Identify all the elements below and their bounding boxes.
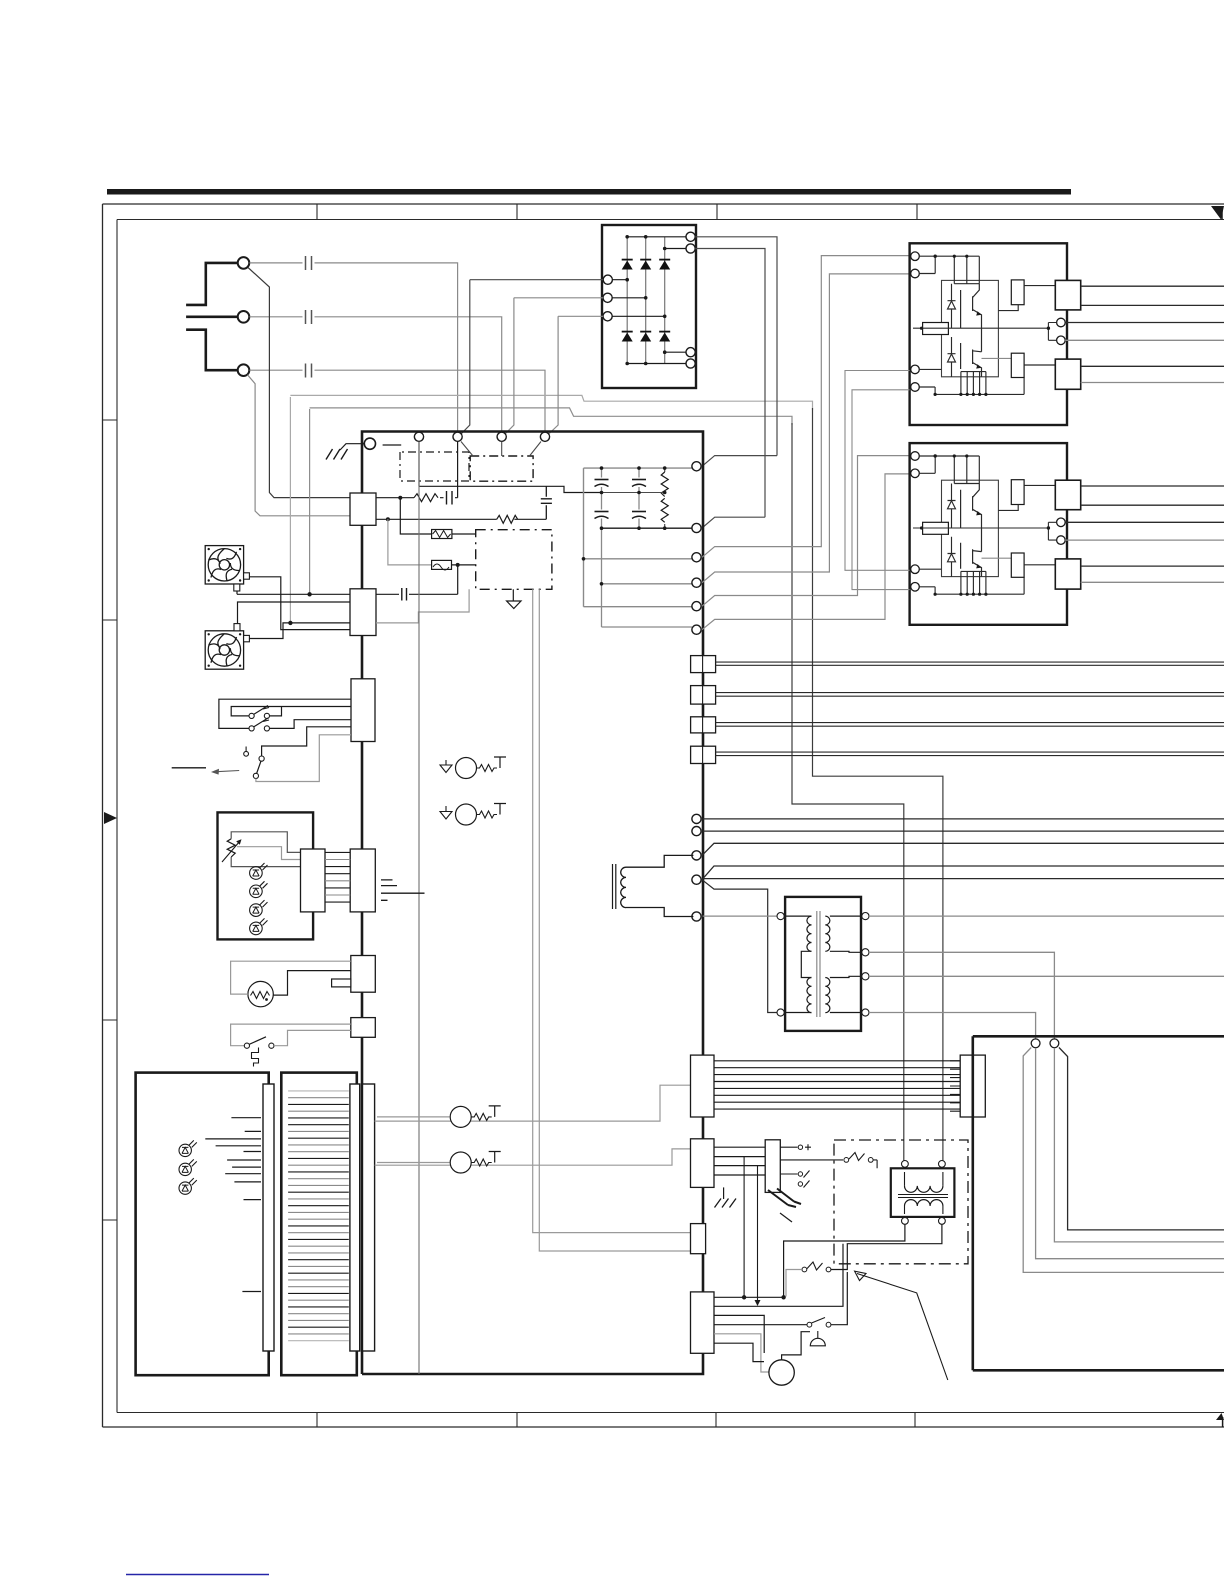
PM1 emitter bus [919,378,1024,395]
wire TH1 upper (gray) [231,961,351,994]
junction dots CN1 [398,496,402,500]
board right-edge terminal T4 [692,578,701,587]
fan FM2 terminal tabs [234,624,240,631]
bridge DC terminal P2 [686,244,695,253]
thermistor TH1 [248,981,273,1006]
fan FM1 corner screws [208,548,242,582]
T2 internal connections [784,916,811,1012]
reactor terminal RT2 [692,827,701,836]
remote board terminal R2 [1050,1039,1059,1048]
wire RT3 to right edge [702,843,1224,855]
board right-edge terminal T3 [692,553,701,562]
PM1 terminal G [911,365,920,374]
motor top wire [782,1332,810,1360]
PM1 terminal N [911,269,920,278]
wire RT1 to right edge [703,818,1224,820]
wire FM2 top tab to CN2 pin2 [238,602,351,624]
capacitor C7 plates [595,479,609,481]
T2 terminal circles [777,913,784,920]
PM1 gate mid rail [913,327,1048,329]
wire T3 secondary left [784,1224,905,1297]
CN11 pin4 wire to buzzer switch [714,1324,807,1326]
PM1 emitter to snubber link [982,357,1012,359]
wire CN2 right pin1 with capacitor C6 [376,593,458,595]
wire F1 to hybrid box [452,533,476,535]
ground symbol below CN8 [723,1187,725,1199]
CN9 pin 3 stub [780,1173,797,1175]
board right-edge terminal T2 [692,523,701,532]
LED LD4 [250,918,268,934]
wire RT5 to transformer T2 primary high [703,915,777,917]
no-connect stubs [381,880,425,900]
dash-dot box small (line filter) [400,452,469,481]
wire bridge DC- to board T2 [695,249,765,529]
leader arrow to option box [857,1274,948,1381]
pressure switch SW2 [249,726,254,731]
junction arrow CN8-CN11 link 2 [757,1166,759,1301]
bridge internal columns and buses [612,237,686,364]
connector CN10 (low) [691,1224,706,1254]
PM1 sense terminal S2 [1057,336,1066,345]
wire column C out 2 (gray) [375,1149,691,1165]
fan FM1 terminal tabs [244,573,250,579]
hybrid ground symbol [512,589,514,601]
thermal fuse F1 [432,530,452,539]
wire FM2 right tab to CN2 pin3 [249,623,350,639]
wire RT4 fan upper to right edge [702,866,1224,880]
wire bridge input 1 [458,280,604,438]
wire VR1 bottom [231,857,300,867]
T3 secondary coil [905,1200,943,1206]
T2 core [817,911,820,1017]
fan FM2 [205,631,243,669]
bridge AC terminal 3 [603,312,612,321]
long earth line down board [418,442,420,1375]
gate harness PM1-PM2 wire 2 [852,390,910,590]
connector CN1 [350,493,376,525]
buzzer switch SW7 [807,1322,812,1327]
PM1 IGBT Q2 [961,343,982,377]
board top terminal D [540,432,549,441]
choke top lead [626,855,693,867]
T3 core [898,1195,948,1198]
potentiometer VR1 [227,839,235,857]
frame zone arrow left [104,812,117,824]
LED LD5 [179,1140,197,1156]
fan FM2 corner screws [208,633,242,667]
bridge DC terminal N1 [686,348,695,357]
input terminal L1 [238,257,250,269]
option connector CN9 [765,1140,780,1193]
wire FM1 bottom tab to CN2 pin1 [237,591,351,594]
selector arrow [214,771,239,772]
wire CN1 pin1 with resistor R1 [376,442,458,498]
wire VR1 wiper (gray) [237,847,301,860]
T3 terminal circles [902,1161,909,1168]
wire from terminal L3 to connector CN1 [248,375,351,516]
CN9 pin 4 stub [798,1182,802,1186]
connector CN3 [351,679,375,742]
nested bus line 3 [1036,1048,1224,1259]
PM1 terminal E [911,383,920,392]
wire T5 to module PM2 T1 [702,456,910,607]
wire T4 to module PM1 T2 [702,274,910,583]
wire VR1 top [231,832,300,853]
frame zone arrow top-right [1211,206,1224,220]
CN7 pin stubs [950,1061,960,1111]
T3 coil stems [905,1172,943,1214]
PM1 gate resistor block [923,323,949,335]
connector CN2 (fan) [350,589,376,636]
nested bus line 1 [1059,1048,1224,1230]
wire terminal A down and across [419,442,602,493]
T2 primary winding upper [807,916,812,951]
board top terminal A [414,432,423,441]
power module PM1 (upper inverter) [910,243,1224,425]
thermistor connector CN4 [351,956,376,993]
bridge diode D1 [622,259,671,342]
wire TH1 lower [273,971,351,996]
float switch actuator meander [252,1048,259,1067]
wire float switch right to CN5 [274,1030,351,1045]
PM1 sense terminal S1 [1057,318,1066,327]
label pointer line [172,767,206,769]
wire fan bus A descent [813,408,943,1160]
selector toggle switch SW3 [244,751,249,756]
border frame outer [103,204,1224,1427]
signal connector SC2 [691,686,716,705]
resistor R1 zigzag [414,494,438,502]
dash-dot remote option box [834,1140,968,1264]
input terminal L3 [238,364,250,376]
board right-edge terminal T5 [692,602,701,611]
CN4 pin stub [332,979,351,987]
capacitor C4 [541,486,552,519]
cap bank bottom bus [602,527,693,529]
CN11 pin1 wire [714,1296,784,1298]
wire bridge input 3 [545,316,603,437]
float switch SW4 [244,1043,249,1048]
wire T2 sec3 to right edge (gray) [869,975,1224,977]
electrolytic column 1 [602,468,693,627]
thermal fuse F2 [432,560,452,569]
reactor terminal RT4 [692,875,701,884]
ribbon housing box [281,1073,357,1376]
wire T3 secondary right to interlock [831,1224,942,1269]
signal connector SC3 [691,717,716,733]
PM1 sense bracket [1048,323,1056,341]
reactor terminal RT5 [692,912,701,921]
capacitor C2 [306,310,312,324]
CN9 pin 2 wire to test switch [780,1159,843,1161]
test point TP2 [445,806,447,812]
wire F2 to hybrid box [452,565,476,594]
frame zone arrow bottom-right [1216,1413,1224,1420]
wire CN2 right pin2 (gray) [376,589,469,623]
nested bus line 2 [1054,1048,1224,1242]
capacitor C10 plates [632,511,646,513]
bridge diode D6 [659,333,670,342]
PM1 IGBT Q1 [961,284,982,352]
bleeder resistor column [664,468,666,528]
display connector inner half [301,849,326,912]
wire T3 to module PM1 T1 [702,256,910,558]
PM1 free-wheel diode D8 [948,337,956,377]
wire SW6 left (gray) [786,1270,802,1297]
main control board outline [362,432,703,1375]
chassis ground symbol [326,449,348,460]
relay link diagonals [461,442,541,457]
display connector outer half [350,849,375,912]
CN11 pin2 wire [714,1244,843,1307]
nested bus line 4 [1023,1048,1224,1273]
wire T2 sec1 to right edge (gray) [869,915,1224,917]
drain pump motor M1 [769,1360,794,1385]
display board outline [218,812,314,939]
wire column C out 1 (gray) [375,1085,691,1121]
T2 primary winding lower [807,978,812,1013]
frame zone ticks bottom [317,1413,915,1428]
board top terminal B [453,432,462,441]
LED LD2 [250,881,268,897]
board right-edge terminal T1 [692,462,701,471]
top heavy rule [107,189,1071,195]
test point TP4 (gray fed) [377,1162,450,1164]
wire RT4 straight to right edge [703,878,1224,880]
hybrid IC dash-dot box [476,530,552,590]
board top terminal C [497,432,506,441]
remote board connector CN7 [960,1055,985,1117]
cap bank left bus vertical [584,468,693,607]
T2 secondary winding lower [825,978,830,1013]
capacitor C6 [402,588,407,601]
terminal block box left [136,1073,269,1376]
cap bank mid bus [602,492,665,494]
bridge junction dots [625,235,666,365]
reactor terminal RT3 [692,851,701,860]
dash-dot box relay RY1 [470,456,533,481]
interlock loop wiring [219,699,351,728]
fan FM1 [205,546,243,584]
display ribbon wires [325,852,350,902]
wire RT2 to right edge [703,830,1224,832]
bridge DC terminal P1 [686,232,695,241]
CN8 pin wires [714,1147,765,1175]
jumper plugs [768,1189,801,1208]
resistor R2 zigzag [497,515,518,523]
signal connector SC4 [691,746,716,763]
capacitor C5 [447,491,453,505]
board earth terminal [364,438,375,449]
AC mains plug (3-phase input) [186,263,239,370]
PM1 output terminal block U [1055,280,1080,310]
gate harness PM1-PM2 wire 1 [845,371,910,571]
input terminal L2 [238,311,250,323]
PM1 terminal P [911,252,920,261]
LED LD7 [179,1178,197,1194]
LED LD6 [179,1159,197,1175]
ribbon connector column C [363,1084,375,1351]
ribbon connector CN6 (board side) [691,1055,715,1117]
capacitor C3 [306,364,312,378]
blue footer line [126,1574,269,1576]
ribbon cable to remote board [714,1061,960,1109]
diode bridge rectifier DB1 [602,225,696,388]
ribbon connector column A [263,1084,274,1351]
CN11 pin3 wire [714,1315,764,1353]
wire bridge input 2 [502,298,603,438]
wire float switch left (gray) [231,1024,351,1046]
DC bus capacitor bank: top bus [584,467,693,469]
wire to thermal fuse F2 (gray) [388,519,432,565]
choke reactor coil [621,867,626,907]
wire SW3 common to CN3 (gray) [256,735,351,782]
reactor terminal RT1 [692,814,701,823]
T2 secondary winding upper [825,916,830,951]
choke bottom lead [626,908,693,917]
wire fan bus B [310,408,792,594]
capacitor C8 plates [595,511,609,513]
power module PM2 (lower inverter, same layout shifted) [910,443,1224,625]
wire to thermal fuse F1 [400,498,431,534]
choke reactor core [613,864,616,909]
board right-edge terminal T6 [692,625,701,634]
PM1 snubber upper [1011,280,1024,305]
signal connector SC1 [691,656,716,673]
connector CN8 (option) [691,1139,715,1188]
frame zone ticks top [317,204,917,220]
CN9 pin 1 with polarity mark [780,1146,797,1148]
resistor R4 zigzag [661,498,668,522]
CN11 pin5 wire (gray) to motor [714,1334,769,1372]
bridge diode D2 [640,261,651,270]
gray pair from hybrid to bottom connectors [533,589,691,1232]
PM1 die outline [942,280,999,376]
CN11 pin6 wire [714,1343,764,1361]
wire fan bus B descent [792,423,904,1160]
frame zone ticks left [103,420,118,1220]
bridge diode D5 [640,333,651,342]
gray tap to cap bank [602,583,693,585]
connector CN11 (bottom) [691,1292,715,1353]
PM1 collector bus and bond wires [919,256,979,284]
transformer T2 box [785,897,861,1031]
bridge diode D3 [659,261,670,270]
wire bridge DC+ to board T1 [695,237,777,466]
ribbon wires [288,1091,349,1341]
PM1 snubber lower [1011,353,1024,377]
wire phase row 3 [250,370,546,432]
test point TP3 (gray fed) [377,1116,450,1118]
cap bank junction dots [582,466,667,585]
bridge DC terminal N2 [686,359,695,368]
remote controller board box [973,1036,1224,1370]
wire RT4 to transformer T2 primary low [702,880,777,1013]
bridge AC terminal 2 [603,293,612,302]
electrolytic column 2 [638,468,640,528]
ribbon connector column B [350,1084,360,1351]
PM1 case [910,243,1067,425]
junction dot CN8-CN11 link 1 [743,1157,745,1298]
test switch SW5 [844,1158,849,1163]
buzzer BZ1 [810,1338,825,1345]
remote switch SW6 [826,1267,831,1272]
terminal label lines [205,1118,261,1292]
wire T6 to module PM2 T2 [702,474,910,630]
wire fan bus A (gray) [290,395,812,623]
earth wire [340,444,364,450]
dash link segment [383,444,402,446]
bridge diode D4 [622,333,633,342]
transformer T3 box [891,1168,955,1217]
wire CN1 pin2 with resistor R2 [376,518,546,520]
pressure switch SW1 [249,713,254,718]
PM1 output wires to page edge [1081,285,1224,287]
PM1 output terminal block V [1055,359,1080,389]
wire SW3 top to CN3 [262,727,351,756]
wire T2 sec4 to remote board terminal (gray) [869,1013,1036,1039]
border frame inner [117,220,1224,1413]
LED LD3 [250,900,268,916]
capacitor C1 [306,256,312,270]
test point TP1 (triangle, circle, resistor) [445,760,447,765]
wire FM1 right tab to CN2 pin4 [249,577,350,630]
LED LD1 [250,863,268,879]
wire phase row 2 [250,317,502,432]
remote board terminal R1 [1031,1039,1040,1048]
resistor R3 zigzag [661,472,668,497]
wire from terminal L1 to connector CN1 [248,268,351,498]
T3 primary coil [905,1186,943,1192]
float switch connector CN5 [351,1018,376,1038]
PM1 gate feed [919,368,941,370]
PM1 free-wheel diode D7 [948,284,956,329]
capacitor C9 plates [632,479,646,481]
wire T2 sec2 to remote board terminal (gray) [869,952,1054,1039]
PM1 emitter pad and bond wires [961,372,986,395]
bridge AC terminal 1 [603,275,612,284]
wire phase row 1 [250,263,458,432]
fan bus junction dots [307,592,311,596]
